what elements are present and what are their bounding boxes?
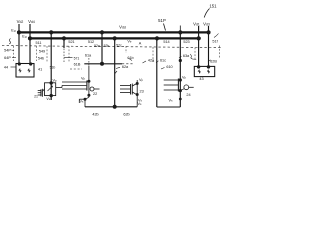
svg-text:Vp: Vp	[52, 78, 57, 82]
svg-text:41: 41	[38, 68, 42, 72]
svg-text:42a: 42a	[148, 59, 155, 63]
svg-text:Vs: Vs	[169, 99, 174, 103]
svg-text:54b: 54b	[38, 57, 44, 61]
svg-text:523: 523	[183, 40, 189, 44]
svg-text:Vd3: Vd3	[203, 22, 210, 27]
svg-text:52c: 52c	[116, 44, 122, 48]
svg-text:22: 22	[93, 92, 97, 96]
svg-text:62a: 62a	[122, 65, 129, 69]
svg-text:21: 21	[34, 95, 38, 99]
svg-text:A: A	[139, 42, 142, 46]
svg-text:514: 514	[163, 40, 169, 44]
svg-text:151: 151	[209, 4, 217, 9]
svg-text:610: 610	[166, 65, 172, 69]
svg-text:23: 23	[140, 89, 144, 93]
svg-text:61B: 61B	[74, 62, 81, 66]
svg-text:Vp: Vp	[139, 78, 144, 82]
svg-text:Vs: Vs	[138, 99, 143, 103]
svg-text:61c: 61c	[160, 58, 166, 62]
svg-text:Eg: Eg	[22, 35, 27, 39]
svg-text:62B: 62B	[210, 59, 217, 63]
svg-text:549: 549	[39, 50, 45, 54]
svg-text:571: 571	[74, 56, 80, 60]
svg-text:42b: 42b	[92, 113, 98, 117]
svg-text:Vd1: Vd1	[193, 22, 200, 27]
svg-text:Eg: Eg	[11, 29, 16, 33]
svg-text:63a: 63a	[183, 54, 190, 58]
svg-text:61b: 61b	[127, 56, 133, 60]
svg-text:521: 521	[68, 40, 74, 44]
svg-text:Vtr: Vtr	[127, 40, 131, 44]
svg-text:Vs: Vs	[138, 102, 143, 106]
svg-text:44: 44	[4, 66, 8, 70]
svg-text:Vdd: Vdd	[119, 25, 126, 30]
svg-text:62b: 62b	[123, 113, 129, 117]
svg-text:43: 43	[199, 77, 203, 81]
svg-text:52a: 52a	[94, 44, 100, 48]
svg-text:51b: 51b	[50, 66, 56, 70]
svg-text:511: 511	[35, 41, 41, 45]
svg-text:61a: 61a	[85, 54, 92, 58]
svg-text:Vp: Vp	[81, 76, 86, 80]
svg-text:Vs1: Vs1	[46, 97, 52, 101]
svg-text:Vd2: Vd2	[17, 19, 24, 24]
svg-text:54P: 54P	[4, 49, 11, 53]
svg-text:52b: 52b	[104, 44, 110, 48]
svg-text:Vd4: Vd4	[28, 19, 35, 24]
svg-text:64P: 64P	[4, 56, 11, 60]
svg-text:Vp: Vp	[182, 76, 187, 80]
svg-text:24: 24	[186, 93, 190, 97]
svg-text:51P: 51P	[158, 18, 166, 23]
